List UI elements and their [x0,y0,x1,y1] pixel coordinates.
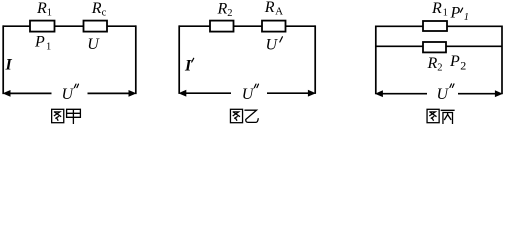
resistor RA (box, circuit B) [262,21,286,32]
circuit A: wire top [3,25,136,27]
svg-text:RA: RA [264,0,283,17]
circuit B: wire right vertical [314,25,316,94]
svg-text:Rc: Rc [91,0,107,19]
arrowhead left (circuit A) [3,90,11,97]
svg-text:U: U [266,37,279,54]
svg-text:I: I [184,58,192,75]
svg-text:R1: R1 [36,0,52,19]
caption "tu bing" (figure C) [427,109,454,123]
svg-text:1: 1 [464,12,469,23]
arrowhead right (circuit C) [495,90,503,97]
svg-text:P2: P2 [449,53,466,73]
circuit B: wire left vertical [178,25,180,94]
circuit C: top rail [376,25,502,27]
resistor Rc (box, circuit A) [84,21,108,32]
svg-text:U: U [437,86,450,103]
circuit C: second rail [376,45,502,47]
char tu (C) [427,109,439,122]
arrowhead left (circuit B) [178,90,186,97]
resistor R2 (box, circuit C bottom) [423,42,446,52]
char yi [245,110,258,122]
caption "tu yi" (figure B) [230,109,258,122]
svg-text:I: I [5,57,13,74]
arrowhead right (circuit B) [308,90,316,97]
svg-text:U: U [242,86,255,103]
arrowhead right (circuit A) [129,90,137,97]
circuit A: wire right vertical [135,25,137,94]
circuit C: wire right vertical [501,26,503,95]
circuit C: wire left vertical [375,26,377,95]
U'' dimension arrow line (circuit A) [8,92,131,94]
svg-text:U: U [87,36,100,53]
char jia [67,109,81,123]
U'' dimension arrow line (circuit B) [184,92,310,94]
resistor R1 (box, circuit C top) [423,21,447,31]
U'' dimension arrow line (circuit C) [381,93,498,95]
svg-text:R2: R2 [427,55,443,74]
svg-text:R2: R2 [217,0,233,19]
char tu (A) [52,109,64,122]
char tu (B) [230,109,242,122]
svg-text:P: P [450,5,461,22]
caption "tu jia" (figure A) [52,109,81,123]
svg-text:U: U [62,86,75,103]
arrowhead left (circuit C) [375,90,383,97]
circuit B: wire top [179,25,315,27]
resistor R1 (box, circuit A) [30,21,55,32]
svg-text:R1: R1 [431,0,448,19]
char bing [441,110,454,123]
circuit A: wire left vertical [2,25,4,94]
resistor R2 (box, circuit B) [210,21,234,32]
svg-text:P1: P1 [34,34,51,53]
